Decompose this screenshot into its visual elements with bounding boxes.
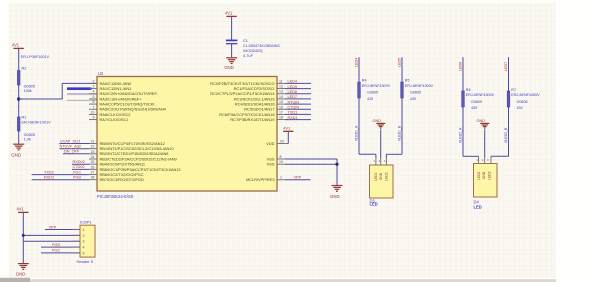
svg-text:U2: U2	[98, 71, 104, 76]
junction	[17, 97, 20, 100]
svg-text:G0805: G0805	[367, 91, 378, 95]
svg-text:LED7: LED7	[504, 62, 508, 71]
svg-text:3: 3	[93, 85, 95, 89]
svg-text:NTUVF_A32: NTUVF_A32	[60, 145, 82, 149]
wire net LED7 (vertical)	[504, 57, 509, 156]
svg-text:430: 430	[410, 97, 416, 101]
svg-text:G0805: G0805	[471, 100, 482, 104]
wire LED4 to D3 pin1	[359, 154, 376, 165]
svg-text:430: 430	[471, 106, 477, 110]
svg-text:TXD2: TXD2	[44, 170, 54, 174]
wire net LED5	[285, 85, 311, 89]
svg-text:VLED2_B: VLED2_B	[504, 127, 508, 143]
connector ICSP1	[73, 220, 96, 264]
svg-text:8: 8	[280, 155, 282, 159]
svg-text:28: 28	[91, 176, 95, 180]
svg-text:GND: GND	[379, 172, 383, 180]
svg-text:GND: GND	[330, 194, 340, 199]
svg-text:12: 12	[279, 85, 283, 89]
svg-text:LED2: LED2	[487, 171, 491, 179]
svg-text:GND: GND	[16, 271, 26, 276]
svg-text:3: 3	[83, 240, 85, 244]
svg-text:Header 5: Header 5	[77, 259, 94, 264]
svg-text:GND: GND	[11, 153, 21, 158]
svg-text:LED: LED	[370, 202, 378, 207]
wire LED6 to D4 pin1	[463, 156, 479, 163]
pin 11 RC0	[210, 79, 285, 85]
ground (D3 common)	[373, 119, 386, 128]
pin 18 RC7	[230, 116, 285, 122]
wire LED5 to D3 pin3	[386, 154, 402, 165]
svg-text:GND: GND	[482, 171, 486, 179]
svg-text:RTUIN: RTUIN	[288, 100, 300, 104]
svg-text:LED4: LED4	[355, 58, 359, 67]
svg-text:GND: GND	[224, 65, 234, 70]
svg-text:ERJ-6ENF4300V: ERJ-6ENF4300V	[511, 93, 540, 97]
svg-text:430: 430	[517, 106, 523, 110]
svg-text:RB7/IOC3/RX2/DT2/PGD: RB7/IOC3/RX2/DT2/PGD	[100, 177, 145, 182]
svg-text:11: 11	[279, 79, 283, 83]
pin 23 RB2	[89, 150, 168, 156]
ground (C1)	[224, 58, 237, 70]
pin 22 RB1	[89, 145, 175, 151]
ground (ICSP)	[16, 264, 29, 277]
power port 4V1 (ICSP)	[17, 206, 29, 212]
wire gnd to D3 pin2	[380, 130, 382, 166]
wire net CTD02	[72, 165, 89, 169]
svg-text:LED4: LED4	[288, 80, 298, 84]
pin 5 RA3	[89, 95, 142, 101]
svg-text:RC7/P3B/RX1/DT1/AN19: RC7/P3B/RX1/DT1/AN19	[230, 117, 274, 122]
svg-text:LED1: LED1	[374, 172, 378, 180]
bus segment (thick)	[67, 87, 92, 90]
svg-text:LED2: LED2	[384, 172, 388, 180]
svg-text:R6: R6	[466, 88, 471, 92]
svg-text:DN_OFF: DN_OFF	[64, 150, 80, 154]
wire net PGD	[41, 243, 80, 247]
wire net VPP	[45, 225, 80, 229]
svg-text:2: 2	[83, 234, 85, 238]
pin 27 RB6	[89, 171, 144, 177]
svg-text:19: 19	[279, 160, 283, 164]
pin 6 RA4	[89, 100, 154, 106]
wire net LED4	[285, 80, 311, 84]
svg-text:ERJ-6ENF4300V: ERJ-6ENF4300V	[405, 84, 434, 88]
wire net NTUVF_A32	[59, 145, 89, 149]
svg-text:CTUIN: CTUIN	[288, 105, 300, 109]
wire net RXD2/PGD	[32, 176, 89, 180]
wire	[18, 85, 20, 117]
pin 25 RB4	[89, 160, 145, 166]
wire net DN_OFF	[63, 150, 89, 154]
LED D3 body	[370, 159, 394, 206]
svg-text:MCLR/VPP/RE3: MCLR/VPP/RE3	[246, 177, 275, 182]
svg-text:5: 5	[83, 251, 85, 255]
pin 26 RB5	[89, 165, 181, 171]
svg-text:VLED1_B: VLED1_B	[398, 125, 402, 141]
wire net PGC	[41, 249, 80, 253]
svg-text:LED6: LED6	[288, 90, 298, 94]
svg-text:6: 6	[93, 100, 95, 104]
pin 20 VDD	[266, 139, 288, 146]
svg-text:4V1: 4V1	[17, 206, 25, 211]
svg-text:5: 5	[93, 95, 95, 99]
svg-text:G0805: G0805	[410, 91, 421, 95]
wire net TXD2/PGC	[32, 170, 89, 174]
power port 4V1 (C1)	[225, 11, 237, 17]
svg-text:4.7uF: 4.7uF	[243, 53, 254, 58]
wire net LED6 (vertical)	[459, 57, 464, 156]
svg-text:16: 16	[279, 105, 283, 109]
resistor R6	[462, 88, 495, 110]
wire net VCAP_OUT	[59, 139, 89, 143]
pin 16 RC5	[244, 105, 285, 111]
net label VLED2_B	[504, 127, 508, 143]
svg-text:VSS: VSS	[267, 162, 275, 167]
power port 4V1 (VDD)	[283, 125, 293, 131]
svg-text:VDD: VDD	[266, 141, 274, 146]
wire RA3	[67, 99, 97, 101]
net label VLED2_A	[459, 127, 463, 143]
svg-text:G0805: G0805	[24, 84, 35, 88]
svg-text:20: 20	[280, 139, 284, 143]
svg-text:LED6: LED6	[459, 62, 463, 71]
wire net LED7	[285, 95, 311, 99]
svg-text:25: 25	[91, 160, 95, 164]
wire	[18, 48, 20, 70]
capacitor C1	[226, 38, 281, 58]
svg-text:TXD1: TXD1	[288, 111, 298, 115]
svg-text:18: 18	[279, 116, 283, 120]
svg-text:VPP: VPP	[294, 176, 302, 180]
svg-text:4: 4	[83, 245, 85, 249]
wire net TXD1	[285, 111, 311, 115]
svg-text:RXD02: RXD02	[73, 160, 85, 164]
svg-text:VLED1_A: VLED1_A	[355, 125, 359, 141]
svg-text:17: 17	[279, 110, 283, 114]
svg-text:RA7/CLKI/OSC1: RA7/CLKI/OSC1	[100, 117, 129, 122]
svg-text:13: 13	[279, 90, 283, 94]
svg-text:430: 430	[367, 97, 373, 101]
svg-text:R4: R4	[362, 79, 367, 83]
svg-text:ICSP1: ICSP1	[80, 220, 92, 225]
svg-text:4V1: 4V1	[283, 125, 290, 130]
pin 8 VSS	[267, 155, 285, 162]
pin 1 MCLR	[246, 176, 285, 183]
svg-text:LED5: LED5	[398, 58, 402, 67]
ground (VSS)	[330, 186, 343, 200]
wire to pin3	[23, 240, 80, 242]
svg-text:27: 27	[91, 171, 95, 175]
wire net CTUIN	[285, 105, 311, 109]
svg-text:LED1: LED1	[477, 171, 481, 179]
svg-text:4: 4	[93, 90, 95, 94]
pin 12 RC1	[234, 85, 285, 91]
resistor R5	[401, 79, 434, 101]
resistor R7	[507, 88, 540, 110]
svg-text:RXD1: RXD1	[288, 116, 298, 120]
pin 2 RA0	[89, 79, 132, 85]
net label VLED1_B	[398, 125, 402, 141]
svg-text:4V1: 4V1	[12, 42, 20, 47]
svg-text:ERJ-6ENF4300V: ERJ-6ENF4300V	[466, 93, 495, 97]
pin 15 RC4	[235, 100, 285, 106]
svg-text:LED: LED	[474, 205, 482, 210]
svg-text:ERJ-6ENF4300V: ERJ-6ENF4300V	[362, 84, 391, 88]
svg-text:22: 22	[91, 145, 95, 149]
wire	[231, 16, 233, 39]
svg-text:1.0k: 1.0k	[24, 138, 31, 142]
sheet bottom edge	[0, 278, 556, 282]
wire net RTUIN	[285, 100, 311, 104]
wire	[18, 131, 20, 144]
wire net RXD1	[285, 116, 311, 120]
wire power/gnd rail	[22, 212, 25, 263]
svg-text:ERJ-6ENF1001V: ERJ-6ENF1001V	[22, 121, 52, 125]
pin 14 RC3	[234, 95, 285, 101]
power port 4V1 (left divider)	[12, 42, 24, 48]
pin 10 RA6	[89, 110, 130, 116]
pin 9 RA7	[89, 116, 128, 122]
svg-text:21: 21	[91, 140, 95, 144]
wire node to RA0	[19, 83, 97, 99]
svg-text:PGC: PGC	[52, 249, 60, 253]
wire RA2	[67, 93, 97, 95]
svg-text:R2: R2	[22, 67, 27, 71]
svg-text:PGC: PGC	[73, 170, 81, 174]
net label VLED1_A	[355, 125, 359, 141]
svg-text:2: 2	[93, 79, 95, 83]
svg-text:7: 7	[93, 105, 95, 109]
svg-text:LED7: LED7	[288, 95, 298, 99]
svg-text:R1: R1	[22, 116, 27, 120]
svg-text:1: 1	[280, 176, 282, 180]
resistor R1	[17, 116, 51, 142]
svg-text:VPP: VPP	[49, 225, 57, 229]
svg-text:G0805: G0805	[517, 100, 528, 104]
svg-text:GND: GND	[373, 119, 382, 123]
svg-text:PIC18F26K22-E/SS: PIC18F26K22-E/SS	[97, 194, 134, 199]
svg-text:10: 10	[91, 110, 95, 114]
pin 21 RB0	[89, 140, 165, 146]
LED D4 body	[474, 158, 498, 210]
svg-text:PGD: PGD	[52, 243, 60, 247]
svg-text:9: 9	[93, 116, 95, 120]
svg-text:23: 23	[91, 150, 95, 154]
svg-text:PGD: PGD	[73, 176, 81, 180]
wire net VPP	[285, 176, 311, 180]
svg-text:G0805: G0805	[24, 133, 35, 137]
svg-text:CTD02: CTD02	[73, 165, 85, 169]
pin 24 RB3	[89, 155, 177, 161]
svg-text:R7: R7	[511, 88, 516, 92]
svg-text:R5: R5	[405, 79, 410, 83]
svg-text:24: 24	[91, 155, 95, 159]
wire LED7 to D4 pin3	[491, 156, 509, 163]
svg-text:100k: 100k	[24, 89, 32, 93]
microcontroller U2 body	[97, 71, 277, 199]
wire	[231, 44, 233, 58]
svg-text:VCAP_OUT: VCAP_OUT	[60, 139, 81, 143]
pin 17 RC6	[219, 110, 285, 116]
svg-text:14: 14	[279, 95, 283, 99]
svg-text:VLED2_A: VLED2_A	[459, 127, 463, 143]
ground (left divider)	[11, 144, 24, 157]
pin 4 RA2	[89, 90, 159, 96]
svg-text:GND: GND	[477, 119, 486, 123]
resistor R2	[17, 55, 49, 93]
resistor R4	[358, 79, 391, 101]
svg-text:26: 26	[91, 165, 95, 169]
pin 28 RB7	[89, 176, 144, 182]
svg-text:15: 15	[279, 100, 283, 104]
svg-text:ERJ-P06F1001V: ERJ-P06F1001V	[21, 55, 50, 59]
wire net LED5 (vertical)	[398, 57, 403, 154]
svg-text:4V1: 4V1	[225, 11, 233, 16]
pin 3 RA1	[89, 85, 131, 91]
svg-text:1: 1	[83, 228, 85, 232]
wire net LED4 (vertical)	[355, 57, 360, 154]
pin 7 RA5	[89, 105, 167, 111]
wire net LED6	[285, 90, 311, 94]
pin 13 RC2	[210, 90, 285, 96]
wire VSS to ground	[285, 159, 339, 185]
svg-text:RXD2: RXD2	[44, 176, 54, 180]
wire net RXD02	[72, 160, 89, 164]
wire VDD rail	[287, 131, 289, 143]
wire to pin2	[23, 234, 80, 236]
ground (D4 common)	[477, 119, 490, 128]
wire gnd to D4 pin2	[484, 130, 486, 164]
svg-text:LED5: LED5	[288, 85, 298, 89]
pin 19 VSS	[267, 160, 285, 167]
